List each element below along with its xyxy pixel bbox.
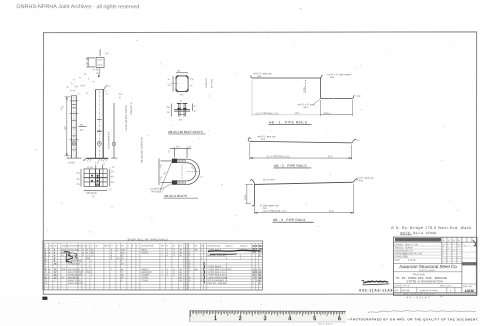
svg-text:6: 6 (256, 278, 258, 280)
svg-text:16: 16 (121, 258, 124, 260)
svg-text:STL PL RAILING: STL PL RAILING (207, 279, 224, 282)
svg-text:¾: ¾ (119, 96, 121, 99)
svg-text:9: 9 (259, 283, 261, 285)
svg-text:2: 2 (54, 280, 56, 282)
svg-text:DESCRIPTION: DESCRIPTION (207, 246, 221, 248)
AB-2 dim (250, 143, 352, 160)
svg-text:4: 4 (226, 280, 228, 282)
svg-text:WT: WT (121, 246, 125, 248)
svg-text:⅛: ⅛ (357, 140, 359, 142)
AB-1 mid dashed dim (303, 80, 306, 94)
svg-text:H-2-36: H-2-36 (402, 289, 410, 292)
svg-text:¾”: ¾” (190, 84, 193, 87)
svg-text:96: 96 (259, 246, 262, 248)
AB-1 lower rail (321, 94, 362, 99)
AB-1 bottom-left notes (252, 80, 321, 117)
svg-text:2: 2 (201, 275, 203, 277)
svg-text:4: 4 (166, 252, 168, 254)
svg-text:SHT. 1 OF 1: SHT. 1 OF 1 (440, 285, 453, 287)
svg-text:11: 11 (86, 255, 89, 257)
svg-text:12: 12 (45, 280, 48, 282)
svg-text:0: 0 (173, 272, 175, 274)
svg-text:cut 2½ x ¾” pipe nipple +: cut 2½ x ¾” pipe nipple + (327, 72, 353, 76)
svg-text:11”: 11” (92, 196, 95, 198)
svg-text:AB-(6)-U-BOLTS: AB-(6)-U-BOLTS (164, 194, 187, 198)
svg-text:½: ½ (103, 161, 105, 165)
U-bolt left dims (159, 158, 172, 185)
svg-text:6: 6 (91, 272, 93, 274)
svg-text:36: 36 (179, 250, 182, 252)
svg-text:1½: 1½ (84, 72, 87, 76)
svg-text:1⅜: 1⅜ (176, 145, 179, 148)
table left panel entries (45, 248, 125, 280)
svg-text:0: 0 (256, 275, 258, 277)
svg-text:½”: ½” (112, 165, 115, 169)
post bar 1 (67, 95, 82, 158)
ruler strip (189, 310, 346, 322)
AB-2 left cap note (258, 134, 277, 141)
AB-1 top tee note (321, 72, 353, 79)
svg-text:62: 62 (91, 250, 94, 252)
base plate center emphasis (84, 169, 107, 187)
svg-text:4: 4 (54, 250, 56, 252)
svg-text:72: 72 (121, 272, 124, 274)
svg-text:1 BOLT ASSYS 140: 1 BOLT ASSYS 140 (207, 276, 227, 279)
svg-text:8: 8 (226, 277, 228, 279)
svg-text:ANGLE: ANGLE (141, 268, 149, 271)
post cap dim texts (86, 51, 110, 75)
svg-text:6: 6 (45, 263, 47, 265)
svg-text:2: 2 (252, 280, 254, 282)
svg-text:3: 3 (111, 252, 113, 254)
svg-text:½: ½ (453, 238, 455, 242)
svg-text:0: 0 (173, 255, 175, 257)
svg-text:10: 10 (45, 275, 48, 277)
svg-text:⅜: ⅜ (93, 81, 95, 83)
svg-text:PER BOLT: PER BOLT (151, 190, 163, 193)
svg-text:MK: MK (49, 245, 53, 247)
svg-text:3: 3 (189, 255, 191, 257)
svg-text:5: 5 (256, 272, 258, 274)
svg-text:WASHERS: WASHERS (68, 276, 80, 279)
svg-text:F.O.: F.O. (394, 289, 399, 292)
svg-text:1: 1 (45, 250, 47, 252)
svg-text:1-0: 1-0 (59, 105, 65, 111)
svg-text:1: 1 (111, 269, 113, 271)
svg-text:10-5: 10-5 (295, 113, 300, 115)
svg-text:AB: AB (194, 268, 197, 271)
svg-text:WT: WT (95, 245, 99, 247)
svg-text:2: 2 (443, 239, 445, 242)
svg-text:AB - 2 PIPE RAILS: AB - 2 PIPE RAILS (274, 164, 307, 168)
svg-text:4½: 4½ (111, 174, 114, 178)
svg-text:0: 0 (111, 255, 113, 257)
svg-text:4: 4 (166, 275, 168, 277)
svg-text:7: 7 (443, 253, 444, 255)
svg-text:24: 24 (259, 272, 262, 274)
svg-text:N: N (45, 245, 47, 247)
svg-text:STATE of WASHINGTON: STATE of WASHINGTON (406, 279, 442, 283)
svg-text:2¾: 2¾ (159, 175, 163, 180)
svg-text:6: 6 (458, 239, 460, 242)
svg-text:11036: 11036 (464, 289, 474, 293)
AB-1 left cap note (254, 72, 273, 78)
ground line under posts (83, 158, 108, 161)
svg-text:⅜ r: ⅜ r (107, 85, 111, 88)
svg-text:1½: 1½ (188, 144, 191, 148)
svg-text:36: 36 (179, 255, 182, 257)
svg-text:PLATE: PLATE (141, 251, 148, 254)
svg-text:N: N (189, 246, 191, 248)
svg-text:AB-140 BOLT ASSYS 2½: AB-140 BOLT ASSYS 2½ (140, 137, 144, 163)
svg-text:3: 3 (448, 239, 450, 242)
svg-text:2: 2 (253, 283, 255, 285)
svg-text:¾ HEX NUTS: ¾ HEX NUTS (68, 274, 82, 277)
U-bolt detail (172, 159, 200, 185)
svg-text:½: ½ (105, 88, 107, 92)
svg-text:SEAT: SEAT (141, 249, 147, 252)
table column lines (44, 243, 258, 290)
title block corner scribble (473, 240, 477, 247)
svg-text:¼: ¼ (79, 76, 81, 79)
bolt assembly detail (171, 103, 192, 116)
svg-text:2¼: 2¼ (179, 118, 182, 121)
svg-text:36: 36 (179, 252, 182, 254)
svg-text:14-AB-140 BOLT ASSYS: 14-AB-140 BOLT ASSYS (125, 105, 128, 131)
svg-text:TOTAL: TOTAL (141, 279, 149, 282)
svg-text:7: 7 (45, 266, 47, 268)
svg-text:6: 6 (189, 266, 191, 268)
under-ground tiny texts (84, 161, 105, 166)
svg-text:3: 3 (45, 255, 47, 257)
svg-text:¾ 1¼: ¾ 1¼ (87, 166, 93, 169)
svg-text:3½: 3½ (80, 123, 83, 127)
svg-text:2-0: 2-0 (95, 162, 99, 164)
svg-text:2: 2 (201, 250, 203, 252)
base plate dim texts (76, 165, 115, 198)
svg-text:1: 1 (201, 269, 203, 271)
svg-text:18: 18 (259, 280, 262, 282)
svg-text:2¾: 2¾ (86, 58, 90, 61)
svg-text:5: 5 (45, 261, 47, 263)
svg-text:f: f (49, 277, 50, 279)
svg-text:0: 0 (86, 250, 88, 252)
svg-text:SYM ABT ℅: SYM ABT ℅ (130, 102, 133, 115)
svg-text:⅜: ⅜ (168, 79, 170, 81)
label: bolt assys (168, 130, 203, 134)
svg-text:1: 1 (201, 277, 203, 279)
svg-text:IN: IN (116, 246, 119, 248)
svg-text:¾: ¾ (67, 86, 69, 89)
svg-text:13: 13 (45, 283, 48, 285)
svg-text:¾ HEX NUT: ¾ HEX NUT (68, 262, 81, 265)
svg-text:10: 10 (121, 264, 124, 266)
svg-text:IN: IN (173, 246, 176, 248)
U-bolt nut callout (150, 162, 171, 193)
base plate detail (81, 165, 110, 191)
svg-text:1: 1 (240, 258, 242, 260)
svg-text:12: 12 (54, 277, 57, 279)
svg-text:FT: FT (86, 245, 89, 247)
svg-text:LENGTH: LENGTH (225, 246, 233, 248)
svg-text:FIELD RIVETS: FIELD RIVETS (68, 283, 83, 285)
svg-text:2-6½: 2-6½ (80, 83, 85, 87)
dot node below cap (98, 75, 100, 77)
svg-text:2|3½|3½|2: 2|3½|3½|2 (86, 191, 97, 195)
svg-text:6: 6 (121, 280, 123, 282)
U-bolt upper dims (168, 144, 191, 158)
bottom strip tint (0, 296, 480, 326)
svg-text:PL: PL (61, 277, 64, 279)
svg-text:9: 9 (45, 272, 47, 274)
svg-text:a: a (49, 250, 51, 252)
pipe rail AB-2 (248, 138, 356, 143)
svg-text:4½: 4½ (162, 171, 167, 175)
svg-text:48: 48 (121, 275, 124, 277)
svg-text:0: 0 (173, 250, 175, 252)
AB-1 riser (320, 78, 322, 98)
faint handwriting upper line (368, 311, 476, 313)
svg-text:3: 3 (226, 266, 228, 268)
AB-3 bottom dim (255, 184, 354, 215)
svg-text:6: 6 (201, 280, 203, 282)
svg-text:2½ PIPE: 2½ PIPE (210, 78, 214, 88)
svg-text:with 1¼” pipe cap: with 1¼” pipe cap (254, 72, 273, 75)
post cap plan detail (87, 49, 105, 67)
right panel lower totals (253, 272, 263, 285)
AB-1 lower dim (321, 100, 353, 116)
svg-text:4: 4 (166, 272, 168, 274)
svg-text:(2) ¾” PIPE RAIL (1½): (2) ¾” PIPE RAIL (1½) (256, 111, 279, 115)
bill of materials table outer box (43, 241, 263, 290)
svg-text:2: 2 (189, 252, 191, 254)
svg-text:AB - 3 PIPE RAILS: AB - 3 PIPE RAILS (273, 218, 306, 222)
svg-text:8: 8 (45, 269, 47, 271)
title block field rows (394, 243, 423, 261)
svg-text:BRACKET: BRACKET (141, 271, 152, 274)
svg-text:PNT. STL. RAILING: PNT. STL. RAILING (207, 282, 227, 285)
svg-text:⅛: ⅛ (73, 79, 75, 81)
svg-text:31-0: 31-0 (328, 156, 333, 158)
svg-text:1⅝: 1⅝ (190, 78, 193, 81)
svg-text:½: ½ (180, 98, 182, 102)
svg-text:½ BOLTS: ½ BOLTS (204, 78, 208, 88)
svg-text:8: 8 (121, 261, 123, 263)
svg-text:14: 14 (121, 277, 124, 279)
svg-text:GR: GR (161, 246, 164, 248)
svg-text:12: 12 (54, 272, 57, 274)
svg-text:FT: FT (110, 246, 113, 248)
svg-text:2½x¾ BARS 4-0: 2½x¾ BARS 4-0 (107, 131, 111, 149)
svg-text:2½: 2½ (75, 84, 78, 88)
svg-text:8: 8 (54, 261, 56, 263)
table middle description entries (141, 249, 182, 277)
svg-text:2¼: 2¼ (76, 172, 79, 175)
svg-text:3-0⅝ +: 3-0⅝ + (324, 112, 332, 115)
svg-text:7: 7 (189, 272, 191, 274)
svg-text:8: 8 (189, 277, 191, 279)
svg-text:std 1½ x ¾” pipe: std 1½ x ¾” pipe (298, 102, 316, 106)
svg-text:2: 2 (161, 272, 163, 274)
svg-text:TOTAL: TOTAL (141, 276, 149, 279)
svg-text:16: 16 (54, 263, 57, 265)
svg-text:1¼ 4: 1¼ 4 (70, 89, 76, 92)
table right panel entries (189, 249, 262, 285)
svg-text:2½: 2½ (168, 83, 171, 87)
svg-text:MK: MK (194, 246, 198, 248)
svg-text:0: 0 (111, 258, 113, 260)
svg-text:4: 4 (54, 252, 56, 254)
svg-text:¼”: ¼” (109, 188, 112, 191)
svg-text:4: 4 (226, 264, 228, 266)
svg-text:1½: 1½ (167, 110, 170, 114)
svg-text:¾”: ¾” (194, 110, 197, 113)
handwritten scrawl right panel (208, 250, 260, 251)
row number columns (45, 250, 191, 285)
title block outer box (393, 237, 477, 295)
svg-text:G.N. Ry. Bridge 178.6 West: G.N. Ry. Bridge 178.6 West End, Wash. (391, 226, 473, 230)
svg-text:52: 52 (121, 255, 124, 257)
svg-text:2: 2 (161, 275, 163, 277)
svg-text:DATE: DATE (394, 259, 400, 262)
svg-text:31: 31 (259, 255, 262, 257)
label AB-1 (269, 120, 312, 124)
svg-text:—: — (466, 255, 468, 257)
svg-text:4: 4 (45, 258, 47, 260)
svg-text:with 1½” pipe cap: with 1½” pipe cap (258, 134, 277, 138)
svg-text:thrd: thrd (262, 207, 267, 210)
svg-text:2: 2 (45, 252, 47, 254)
svg-text:31: 31 (259, 251, 262, 253)
svg-text:1: 1 (91, 261, 93, 263)
svg-text:4-16-36: 4-16-36 (408, 259, 416, 262)
svg-text:98: 98 (179, 280, 182, 282)
svg-text:2¾: 2¾ (180, 93, 183, 96)
svg-text:½”: ½” (200, 174, 203, 178)
svg-text:thrd: thrd (261, 138, 266, 141)
table left panel extra entries (45, 256, 183, 285)
svg-text:2¾: 2¾ (159, 163, 163, 168)
svg-text:8: 8 (54, 258, 56, 260)
svg-text:SHOP BILL OF MATERIALS: SHOP BILL OF MATERIALS (127, 237, 168, 241)
bolt assembly dim texts (167, 98, 197, 121)
svg-text:2¼: 2¼ (167, 106, 170, 109)
post bar 3 (111, 103, 117, 158)
svg-text:62: 62 (259, 278, 262, 280)
svg-text:31-0: 31-0 (329, 211, 334, 213)
svg-text:thrd: thrd (257, 75, 262, 78)
svg-text:(2) ¾” PIPE RAIL (1½): (2) ¾” PIPE RAIL (1½) (267, 154, 290, 158)
svg-text:4: 4 (443, 246, 444, 248)
svg-text:24: 24 (54, 275, 57, 277)
svg-text:1¾ r: 1¾ r (190, 166, 196, 172)
svg-text:R.4.·/ 6.4.(,47·4·¼·4.7: R.4.·/ 6.4.(,47·4·¼·4.7 (404, 293, 434, 296)
title block field row rules (394, 245, 477, 262)
svg-text:WEIGHT: WEIGHT (240, 246, 248, 248)
svg-text:2¾: 2¾ (111, 181, 114, 184)
svg-text:4: 4 (111, 250, 113, 252)
svg-text:232: 232 (121, 252, 125, 254)
svg-text:BOLT: BOLT (61, 269, 67, 271)
svg-text:36: 36 (179, 272, 182, 274)
svg-text:1: 1 (201, 272, 203, 274)
svg-text:3½: 3½ (76, 177, 79, 181)
svg-text:BAR: BAR (61, 249, 66, 252)
svg-text:CLAMP: CLAMP (141, 274, 149, 277)
table header labels (45, 244, 263, 247)
svg-text:GNRHS-NPRHA Joint Archives - a: GNRHS-NPRHA Joint Archives - all rights … (16, 4, 139, 10)
svg-text:0: 0 (173, 275, 175, 277)
svg-text:NOTE: Rail A. 97038.: NOTE: Rail A. 97038. (400, 231, 438, 235)
title block banner divider (393, 262, 462, 264)
svg-text:6¾: 6¾ (80, 129, 83, 132)
svg-text:¼: ¼ (71, 82, 73, 85)
order number row (394, 289, 452, 292)
svg-text:x: x (453, 250, 454, 252)
bar 1 top dim texts (67, 79, 80, 95)
AB-3 left height dim (244, 184, 253, 203)
svg-text:11: 11 (45, 277, 48, 279)
svg-text:DWG. NO.: DWG. NO. (463, 286, 473, 288)
svg-text:¾” pipe nipple cap: ¾” pipe nipple cap (260, 204, 279, 207)
svg-text:2-0¼: 2-0¼ (244, 194, 247, 200)
svg-text:2: 2 (226, 275, 228, 277)
pipe rail AB-1 upper rail (251, 75, 321, 78)
svg-text:2: 2 (226, 258, 228, 260)
svg-text:FT: FT (166, 246, 169, 248)
svg-text:2: 2 (161, 252, 163, 254)
svg-text:9: 9 (86, 252, 88, 254)
svg-text:002-11A5-11A8: 002-11A5-11A8 (359, 288, 393, 292)
svg-text:2-6: 2-6 (105, 51, 109, 55)
svg-text:1½ 3½: 1½ 3½ (92, 67, 99, 71)
svg-text:PC: PC (54, 245, 57, 247)
svg-text:0: 0 (173, 269, 175, 271)
sheet border (43, 32, 476, 295)
AB-1 tee note (298, 99, 320, 109)
inspector signature (363, 281, 388, 283)
svg-text:¾∅ U-BOLT: ¾∅ U-BOLT (68, 268, 81, 271)
svg-text:c: c (49, 255, 51, 257)
AB-3 right cap note (356, 176, 374, 183)
title block dwg number box (462, 262, 477, 293)
svg-text:4: 4 (166, 250, 168, 252)
AB-3 nipple note (260, 204, 279, 210)
svg-text:0: 0 (173, 252, 175, 254)
svg-text:2: 2 (161, 255, 163, 257)
svg-text:C: C (136, 246, 138, 248)
svg-text:0: 0 (116, 250, 118, 252)
svg-text:3¼: 3¼ (86, 62, 90, 65)
svg-text:4-0: 4-0 (64, 126, 67, 130)
svg-text:13: 13 (91, 255, 94, 257)
svg-text:e: e (49, 272, 51, 274)
right panel dark totals (253, 246, 264, 254)
svg-text:½: ½ (78, 91, 80, 95)
svg-text:5: 5 (450, 289, 452, 292)
svg-text:REM: REM (104, 246, 109, 248)
table row lines (43, 243, 263, 290)
svg-text:¾: ¾ (86, 92, 88, 95)
ground hatches (87, 158, 107, 161)
svg-text:98: 98 (179, 277, 182, 279)
svg-text:4: 4 (166, 255, 168, 257)
svg-text:“: “ (85, 161, 86, 163)
svg-text:PL: PL (61, 255, 64, 257)
svg-text:1: 1 (448, 248, 449, 250)
leader from cap to bar2 (99, 68, 100, 75)
svg-text:AB - 1 PIPE RAILS: AB - 1 PIPE RAILS (269, 120, 307, 124)
